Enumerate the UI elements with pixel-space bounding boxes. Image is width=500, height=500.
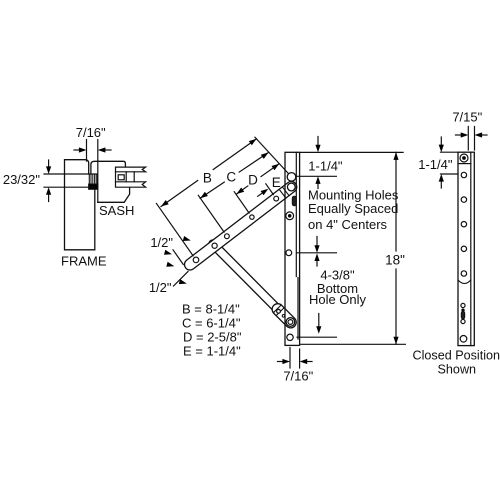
svg-text:C = 6-1/4": C = 6-1/4": [182, 316, 241, 331]
arrow right 1-1/4 bottom: [439, 174, 444, 188]
main arm strip: [182, 179, 299, 272]
dim line 18: [393, 152, 398, 344]
hinge knuckle lines: [91, 174, 96, 184]
track mounting hole: [286, 250, 292, 256]
4in centers line: [297, 252, 336, 254]
ext line from hole E: [266, 184, 274, 195]
arrow 1/2 upper text: [183, 236, 191, 241]
svg-text:Closed Position: Closed Position: [413, 348, 500, 362]
arrow right 1-1/4 top: [439, 137, 444, 152]
frame outline: [65, 160, 95, 250]
track hole with dot: [286, 212, 294, 220]
hinge pivot block (black): [89, 184, 98, 189]
right bar shoe hole a: [461, 303, 465, 307]
right bar top pivot: [460, 154, 468, 162]
arrow 23/32 upper: [46, 160, 51, 174]
arrow 7/16 left: [74, 147, 87, 152]
arm hole B: [193, 257, 199, 263]
svg-text:D = 2-5/8": D = 2-5/8": [183, 330, 242, 345]
ext line from pivot: [255, 137, 288, 173]
bottom extension line: [301, 343, 406, 345]
dim line C: [200, 152, 268, 198]
sash latch divider 1: [125, 172, 127, 182]
arm hole E: [274, 196, 279, 201]
track cam slot: [292, 196, 296, 206]
svg-text:SASH: SASH: [99, 203, 134, 218]
hinge knuckle box: [89, 174, 97, 184]
track top pivot: [287, 173, 296, 182]
svg-text:B: B: [203, 170, 212, 185]
arrow 7/16 right: [98, 147, 111, 152]
track bottom pivot: [286, 318, 295, 327]
arrow 7/15 right: [475, 132, 488, 137]
svg-text:on 4" Centers: on 4" Centers: [308, 217, 388, 232]
svg-text:1-1/4": 1-1/4": [418, 157, 453, 172]
right bar hole 4: [461, 246, 466, 251]
arrow 4in top: [314, 237, 319, 253]
track bottom hole: [287, 334, 293, 340]
svg-text:D: D: [248, 172, 258, 187]
right ext line b: [474, 127, 476, 151]
right 1-1/4 top line: [441, 151, 459, 153]
right bar shoe arc: [458, 280, 471, 284]
sash latch square hole: [118, 175, 124, 180]
arrow 1-1/4 bottom: [315, 176, 320, 188]
arrow 1/2 upper a: [164, 250, 172, 255]
ext line left of 7/16 dim: [86, 140, 88, 162]
ext line right of 7/16 dim (sash edge): [97, 140, 99, 203]
right bar hole 2: [461, 197, 466, 202]
sash latch bottom rail: [116, 182, 146, 187]
ext line arm end: [173, 250, 183, 265]
track bar inner line: [296, 152, 298, 339]
bottom hole ref line: [297, 336, 336, 338]
right bar hole 1: [461, 172, 466, 177]
svg-text:7/16": 7/16": [76, 125, 106, 140]
svg-text:1/2": 1/2": [149, 280, 172, 295]
arrow 7/15 left: [456, 132, 469, 137]
ext line from hole B: [156, 203, 193, 255]
track bar outline: [285, 152, 300, 345]
arm hole link-pivot: [212, 243, 217, 248]
svg-text:18": 18": [385, 253, 405, 268]
svg-text:B = 8-1/4": B = 8-1/4": [182, 302, 240, 317]
arrow E left: [258, 189, 269, 197]
link paddle end: [270, 301, 299, 330]
right 1-1/4 bottom line: [441, 173, 459, 175]
ext line from hole D: [234, 192, 249, 213]
ext line 7/16 right: [299, 349, 301, 368]
svg-text:Hole Only: Hole Only: [309, 292, 367, 307]
arrow 7/16 bot right: [300, 359, 312, 364]
svg-text:7/15": 7/15": [452, 109, 482, 124]
svg-text:FRAME: FRAME: [61, 254, 107, 269]
svg-text:1/2": 1/2": [150, 235, 173, 250]
top extension line: [301, 151, 404, 153]
link paddle hole 1: [277, 309, 281, 313]
link arm (lower): [207, 238, 284, 316]
right bar shoe slot: [461, 312, 464, 319]
right bar bottom hole: [460, 336, 467, 343]
arm hole C: [225, 234, 230, 239]
pivot extension line right: [296, 175, 337, 177]
arrow 4in bottom: [314, 253, 319, 266]
ext line from hole C: [198, 195, 224, 232]
arrow 1/2 lower: [179, 279, 187, 284]
arm end cap hole: [287, 183, 295, 191]
right bar shoe hole b: [461, 319, 465, 323]
link paddle hole 2: [282, 315, 285, 318]
svg-text:Shown: Shown: [438, 362, 477, 376]
right bar hole 3: [461, 222, 466, 227]
arm hole D: [250, 215, 254, 219]
svg-text:1-1/4": 1-1/4": [308, 158, 343, 173]
dim line 23/32 upper: [44, 173, 97, 175]
right bar separator: [458, 163, 471, 165]
right bar inner line: [470, 152, 472, 345]
leader 1/2 lower: [174, 272, 189, 287]
arrow 7/16 bot left: [278, 359, 291, 364]
sash latch divider 2: [133, 172, 135, 182]
svg-text:7/16": 7/16": [283, 369, 313, 384]
arrow 1/2 upper b: [166, 262, 174, 267]
svg-text:Equally Spaced: Equally Spaced: [308, 201, 398, 216]
svg-text:E = 1-1/4": E = 1-1/4": [183, 344, 241, 359]
svg-text:E: E: [272, 175, 281, 190]
svg-text:23/32": 23/32": [3, 172, 41, 187]
ext line 7/16 left: [289, 348, 291, 369]
dim line B: [161, 139, 257, 207]
arrow bottom hole: [316, 314, 321, 334]
svg-text:C: C: [226, 169, 236, 184]
arrow 1-1/4 top: [315, 137, 320, 153]
right bar hole 5: [461, 271, 466, 276]
right bar outline: [458, 152, 474, 345]
sash latch left edge: [115, 172, 117, 182]
dim line 23/32 lower: [44, 186, 94, 188]
dim line D: [237, 164, 280, 194]
right bar shoe dot: [462, 309, 464, 311]
arrow 23/32 lower: [46, 187, 51, 201]
sash latch top rail: [116, 167, 146, 172]
sash body outline: [91, 161, 130, 202]
right ext line a: [467, 127, 469, 151]
